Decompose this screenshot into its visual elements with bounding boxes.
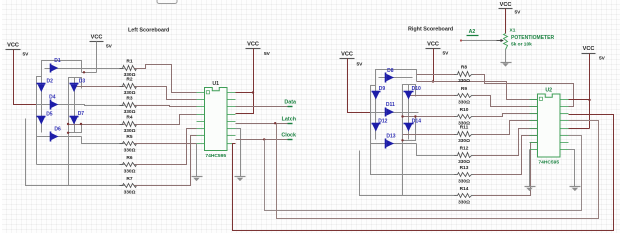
svg-text:330Ω: 330Ω [458,99,470,105]
wire [69,78,82,186]
diode D5 [38,117,46,125]
wire [403,117,416,141]
diode D12 [372,124,380,132]
wire [236,129,241,177]
wire [236,139,291,141]
ground [525,186,536,188]
wire [569,128,590,130]
svg-text:D1: D1 [54,58,61,64]
svg-text:5k or 10k: 5k or 10k [511,42,532,48]
wire [26,119,125,186]
node junction [67,132,69,134]
svg-text:D2: D2 [46,79,53,85]
node junction [67,123,69,125]
wire [408,85,410,140]
svg-text:R3: R3 [126,95,132,101]
svg-text:R14: R14 [460,186,469,192]
svg-text:D5: D5 [46,111,53,117]
diode D7 [70,117,78,125]
svg-text:D3: D3 [79,79,86,85]
wire [474,129,538,156]
svg-text:R8: R8 [461,64,467,70]
wire [37,77,42,165]
svg-text:VCC: VCC [341,52,353,58]
diode D2 [38,84,46,92]
svg-text:5V: 5V [23,52,30,58]
wire [37,105,125,106]
svg-text:U2: U2 [545,88,552,94]
wire [82,72,97,74]
wire [403,85,416,196]
wire [371,86,376,144]
wire [589,54,591,129]
svg-text:D13: D13 [386,134,395,140]
wire [417,82,538,100]
wire [371,144,456,175]
node junction [588,99,590,101]
diode D9 [372,92,380,100]
diode D11 [386,108,394,116]
svg-text:D11: D11 [386,102,395,108]
svg-text:Clock: Clock [281,133,296,139]
wire [474,121,538,135]
ground [235,176,246,178]
wire [196,144,198,177]
svg-text:330Ω: 330Ω [124,147,136,153]
svg-text:330Ω: 330Ω [458,178,470,184]
wire [569,150,575,187]
node junction [252,91,254,93]
svg-text:330Ω: 330Ω [124,109,136,115]
wire [474,143,538,196]
wire [233,115,614,231]
wire [277,121,599,219]
wire [474,75,574,107]
node junction [274,122,276,124]
node junction [83,71,85,73]
svg-text:330Ω: 330Ω [458,138,470,144]
diode D13 [386,140,394,148]
svg-text:74HC595: 74HC595 [205,153,226,159]
wire [417,74,456,76]
svg-text:D9: D9 [379,86,386,92]
svg-text:R5: R5 [126,134,132,140]
svg-text:D14: D14 [412,118,421,124]
wire [474,114,538,117]
svg-text:330Ω: 330Ω [124,168,136,174]
wire [505,50,507,63]
svg-text:VCC: VCC [7,43,19,49]
svg-text:R7: R7 [126,176,132,182]
wire [236,123,291,125]
ground [192,176,203,178]
wire [433,49,435,82]
wire [348,59,371,113]
node junction [401,139,403,141]
wire [69,125,82,133]
svg-text:VCC: VCC [500,2,512,8]
svg-text:330Ω: 330Ω [124,128,136,134]
diode D6 [51,133,59,141]
svg-text:VCC: VCC [91,35,103,41]
wire [417,144,456,156]
wire [360,151,456,196]
svg-text:R1: R1 [126,58,132,64]
svg-text:R13: R13 [460,165,469,171]
svg-text:D4: D4 [49,95,56,101]
wire [96,42,98,73]
potentiometer X1 [504,34,508,50]
wire [41,77,43,133]
diode D10 [405,92,413,100]
svg-text:VCC: VCC [427,42,439,48]
svg-text:330Ω: 330Ω [458,199,470,205]
svg-text:330Ω: 330Ω [458,78,470,84]
node junction [80,123,82,125]
svg-text:R4: R4 [126,114,132,120]
svg-text:74HC595: 74HC595 [538,160,559,166]
diode D14 [405,124,413,132]
wire [135,136,197,186]
svg-text:POTENTIOMETER: POTENTIOMETER [511,35,554,41]
ground [570,186,581,188]
svg-text:R6: R6 [126,155,132,161]
wire [529,150,531,187]
wire [37,164,125,166]
svg-text:R11: R11 [460,124,469,130]
svg-text:R9: R9 [461,86,467,92]
diode D4 [51,101,59,109]
wire [42,61,82,77]
wire [403,134,456,136]
svg-text:Latch: Latch [282,116,296,122]
diode D1 [51,64,59,72]
wire [37,136,82,138]
wire [236,92,254,94]
svg-text:Left Scoreboard: Left Scoreboard [128,28,169,34]
svg-text:5V: 5V [443,51,450,57]
wire [75,86,125,88]
wire [236,106,291,108]
svg-text:D10: D10 [412,86,421,92]
svg-text:R2: R2 [126,76,132,82]
node junction [263,138,265,140]
op-amp U1 74HC595 [205,88,228,151]
wire [376,70,417,86]
wire [265,136,582,211]
svg-text:Data: Data [284,100,297,106]
diode D3 [70,84,78,92]
wire [379,77,413,79]
svg-text:R12: R12 [460,145,469,151]
svg-text:5V: 5V [264,51,271,57]
wire [74,78,76,133]
wire [135,143,197,145]
wire [403,116,456,118]
wire [505,9,507,34]
wire [135,65,197,93]
diode D8 [386,74,394,82]
wire [474,96,538,107]
toolbar fragment [157,0,177,4]
wire [236,49,254,114]
wire [135,106,197,107]
svg-text:Right Scoreboard: Right Scoreboard [408,27,453,33]
node junction [401,115,403,117]
svg-text:5V: 5V [106,44,113,50]
svg-text:R10: R10 [460,107,469,113]
svg-text:330Ω: 330Ω [124,189,136,195]
svg-text:5V: 5V [357,62,364,68]
wire [69,124,125,126]
op-amp U2 74HC595 [538,94,561,157]
svg-text:5V: 5V [599,56,606,62]
svg-text:D8: D8 [387,68,394,74]
wire [462,40,497,42]
svg-text:VCC: VCC [583,46,595,52]
svg-text:X1: X1 [510,28,516,34]
node terminal [460,39,462,41]
wire [569,99,590,101]
wire [375,86,377,140]
svg-text:A2: A2 [469,29,476,35]
wire [82,137,125,144]
wire [135,115,197,125]
wire [409,95,456,97]
svg-text:330Ω: 330Ω [458,159,470,165]
svg-text:VCC: VCC [247,41,259,47]
wire [14,50,37,105]
svg-text:D12: D12 [378,118,387,124]
svg-text:330Ω: 330Ω [124,90,136,96]
svg-text:5V: 5V [515,10,522,16]
wire [371,143,417,145]
wire [371,112,419,114]
ground [501,62,512,64]
svg-text:D6: D6 [54,127,61,133]
svg-text:D7: D7 [78,111,85,117]
wire [45,68,125,70]
node junction [414,115,416,117]
wire [135,129,197,165]
wire [135,87,197,100]
wire [474,136,538,175]
node junction [432,80,434,82]
svg-text:U1: U1 [212,81,219,87]
